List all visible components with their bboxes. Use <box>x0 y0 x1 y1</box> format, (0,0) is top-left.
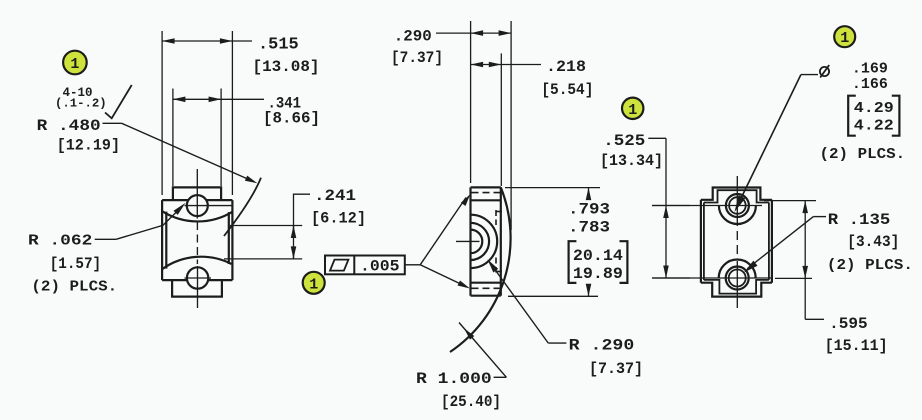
text R 1.000 <box>416 370 492 388</box>
text R .062 <box>28 233 92 250</box>
text 19.89 <box>573 265 623 283</box>
brackets [20.14 19.89] <box>569 241 628 283</box>
right view centerlines <box>652 176 773 308</box>
svg-text:[1.57]: [1.57] <box>50 255 101 273</box>
text .595 <box>829 315 868 333</box>
text .793 <box>568 201 610 219</box>
text [25.40] <box>441 393 501 411</box>
svg-text:R .290: R .290 <box>569 337 635 355</box>
.525 dimension structure <box>648 138 690 278</box>
text .166 <box>852 76 888 93</box>
text [5.54] <box>541 81 593 99</box>
text [8.66] <box>263 110 320 128</box>
.595 dimension structure <box>802 201 824 320</box>
svg-text:1: 1 <box>840 30 849 47</box>
svg-text:[15.11]: [15.11] <box>825 337 888 355</box>
svg-text:[7.37]: [7.37] <box>589 360 643 378</box>
text [12.19] <box>57 137 120 155</box>
feature control frame <box>325 256 405 275</box>
right bottom hole <box>726 267 749 290</box>
text 4.22 <box>854 118 894 135</box>
leader R .290 <box>488 259 567 343</box>
text .515 <box>258 35 299 54</box>
middle view bulge arc (R 1.000 surface) <box>450 187 511 352</box>
middle view centerline <box>456 240 480 242</box>
svg-text:.241: .241 <box>314 187 356 205</box>
middle view hidden lines <box>472 193 504 289</box>
svg-text:(2) PLCS.: (2) PLCS. <box>827 257 913 274</box>
text [1.57] <box>50 255 101 273</box>
surface finish symbol <box>105 85 132 118</box>
FCF leaders <box>405 194 471 288</box>
leader for R .480 <box>103 123 258 183</box>
balloon 1 (left) <box>63 51 87 75</box>
note (.1-.2) <box>55 97 107 111</box>
dimension line .218 <box>471 62 541 68</box>
right bottom hole spotface arc <box>719 260 756 279</box>
text [6.12] <box>311 210 366 228</box>
extension lines for .793 <box>505 188 600 297</box>
text .525 <box>603 132 645 150</box>
text (2) PLCS. (dia) <box>820 146 906 163</box>
svg-text:.218: .218 <box>546 58 586 76</box>
left view top hole <box>187 195 208 216</box>
left view bottom hole <box>187 267 208 288</box>
leader dia .169 <box>735 75 819 212</box>
dimension .793 arrows <box>586 188 592 297</box>
right top hole <box>726 194 749 217</box>
svg-text:[5.54]: [5.54] <box>541 81 593 99</box>
extension lines .595 <box>764 201 816 279</box>
balloon 1 (right) <box>834 26 855 47</box>
svg-text:.166: .166 <box>852 76 888 93</box>
text (2) PLCS. (left) <box>31 279 117 296</box>
dimension line .290 <box>436 30 511 36</box>
svg-text:4.22: 4.22 <box>854 118 894 135</box>
text R .480 <box>37 117 101 135</box>
middle view outline <box>471 187 501 295</box>
text 20.14 <box>573 247 623 265</box>
svg-text:[7.37]: [7.37] <box>391 49 443 67</box>
svg-text:1: 1 <box>309 276 318 293</box>
balloon 1 (middle) <box>303 272 325 294</box>
balloon 1 (525) <box>622 98 643 119</box>
text .341 <box>268 95 302 113</box>
leader R .135 <box>744 217 826 273</box>
middle view groove arcs <box>471 215 498 268</box>
left view centerlines <box>185 169 233 308</box>
svg-text:.525: .525 <box>603 132 645 150</box>
extension lines for .341 dim <box>173 89 221 187</box>
svg-text:20.14: 20.14 <box>573 247 623 265</box>
extension lines for .290/.218 <box>471 21 512 230</box>
text .169 <box>852 61 888 78</box>
text 4.29 <box>854 100 894 117</box>
text .241 <box>314 187 356 205</box>
text .005 <box>360 258 400 276</box>
text [13.08] <box>253 58 320 76</box>
leader for R .062 <box>95 203 186 239</box>
svg-text:.793: .793 <box>568 201 610 219</box>
brackets [4.29 4.22] <box>848 96 899 136</box>
text .218 <box>546 58 586 76</box>
svg-text:1: 1 <box>628 102 637 119</box>
text [7.37] (R290) <box>589 360 643 378</box>
R .480 reference arc <box>224 178 261 236</box>
svg-text:.595: .595 <box>829 315 868 333</box>
text [7.37] (top) <box>391 49 443 67</box>
svg-text:[13.34]: [13.34] <box>600 152 663 170</box>
svg-text:R .062: R .062 <box>28 233 92 250</box>
text [3.43] <box>847 233 899 251</box>
text .290 <box>394 28 432 46</box>
text [15.11] <box>825 337 888 355</box>
dimension .241 bracket and arrows <box>291 194 310 259</box>
extension lines for .241 <box>224 226 302 259</box>
leader R 1.000 <box>459 323 506 378</box>
text R .135 <box>828 211 891 229</box>
text R .290 <box>569 337 635 355</box>
svg-text:[6.12]: [6.12] <box>311 210 366 228</box>
extension lines for .515 dim <box>162 31 232 195</box>
svg-text:[12.19]: [12.19] <box>57 137 120 155</box>
svg-text:R .480: R .480 <box>37 117 101 135</box>
svg-text:R 1.000: R 1.000 <box>416 370 492 388</box>
text [13.34] <box>600 152 663 170</box>
svg-text:1: 1 <box>70 56 79 73</box>
right view outline <box>701 188 772 297</box>
svg-text:19.89: 19.89 <box>573 265 623 283</box>
dimension line .341 with arrows <box>173 97 264 103</box>
svg-text:(2) PLCS.: (2) PLCS. <box>820 146 906 163</box>
svg-text:.783: .783 <box>568 219 610 237</box>
left view outline <box>162 187 232 296</box>
svg-text:[25.40]: [25.40] <box>441 393 501 411</box>
diameter symbol <box>820 65 829 78</box>
text (2) PLCS. (R135) <box>827 257 913 274</box>
svg-text:(.1-.2): (.1-.2) <box>55 97 107 111</box>
svg-text:.005: .005 <box>360 258 400 276</box>
svg-text:[8.66]: [8.66] <box>263 110 320 128</box>
svg-text:[3.43]: [3.43] <box>847 233 899 251</box>
svg-text:(2) PLCS.: (2) PLCS. <box>31 279 117 296</box>
svg-text:R .135: R .135 <box>828 211 891 229</box>
right view inner contour <box>704 190 769 293</box>
right top hole spotface arc <box>719 206 756 225</box>
svg-text:.515: .515 <box>258 35 299 54</box>
svg-text:.290: .290 <box>394 28 432 46</box>
svg-text:[13.08]: [13.08] <box>253 58 320 76</box>
text .783 <box>568 219 610 237</box>
dimension line .515 with arrows <box>162 38 252 44</box>
note 4-10 <box>63 86 93 100</box>
svg-text:4.29: 4.29 <box>854 100 894 117</box>
